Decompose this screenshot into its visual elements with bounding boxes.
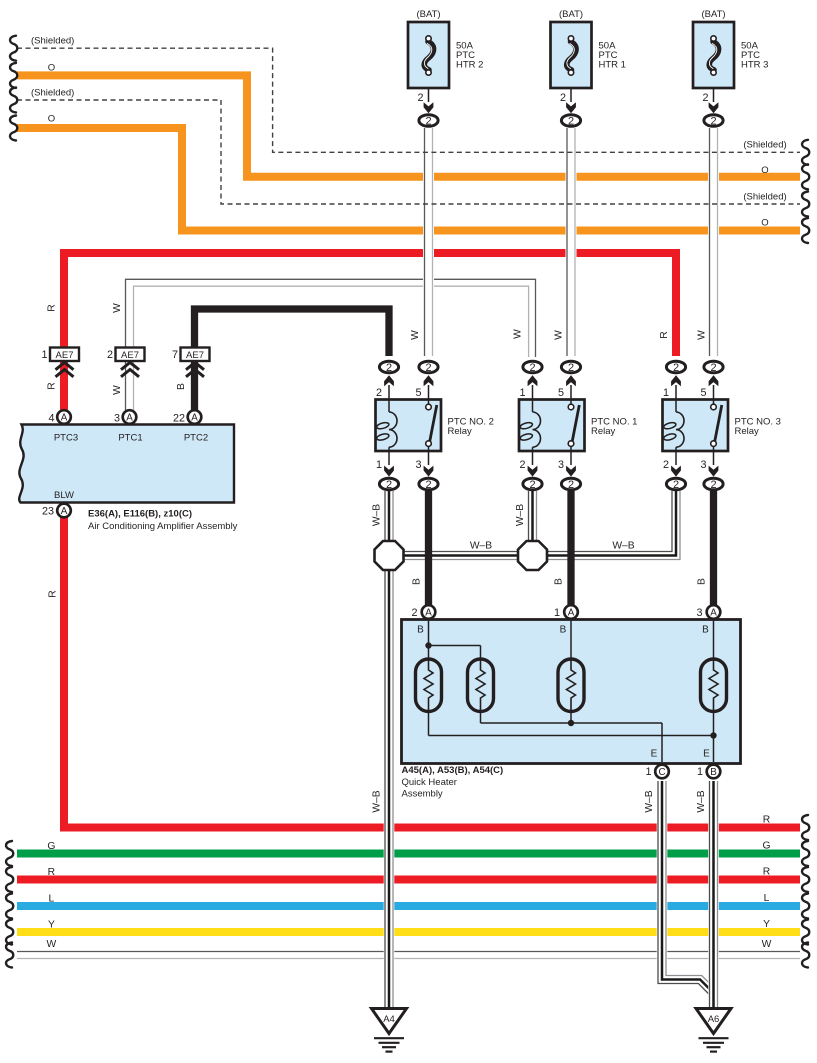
wire W-B heater pin B to ground A6 bbox=[708, 780, 719, 1009]
quick heater assembly box bbox=[402, 620, 741, 764]
svg-text:1: 1 bbox=[554, 607, 560, 619]
svg-text:AE7: AE7 bbox=[186, 350, 204, 361]
relay PTC NO. 2 label bbox=[448, 417, 494, 438]
relay PTC NO. 3 label bbox=[735, 417, 781, 438]
heater pin 1 (B) E bbox=[697, 749, 720, 779]
wire Y bottom bbox=[17, 928, 800, 936]
svg-text:B: B bbox=[176, 383, 187, 390]
svg-text:2: 2 bbox=[529, 479, 535, 491]
relay PTC NO. 1 label bbox=[591, 417, 637, 438]
wire L bottom bbox=[17, 902, 800, 910]
svg-text:A: A bbox=[191, 412, 198, 423]
svg-text:W–B: W–B bbox=[644, 790, 655, 812]
svg-text:2: 2 bbox=[519, 459, 525, 471]
svg-text:(BAT): (BAT) bbox=[559, 9, 583, 20]
svg-text:HTR 3: HTR 3 bbox=[741, 60, 768, 71]
svg-text:W–B: W–B bbox=[470, 541, 492, 552]
connector AE7 pin 1 bbox=[41, 348, 79, 377]
fuse F1 50A PTC HTR 2 connector bbox=[417, 92, 438, 128]
svg-text:4: 4 bbox=[48, 413, 54, 425]
svg-text:B: B bbox=[710, 767, 717, 778]
label shielded/O left bbox=[31, 36, 74, 125]
fuse F2 50A PTC HTR 1 labels bbox=[559, 9, 626, 71]
heater pin 1 (A) bbox=[554, 605, 578, 635]
svg-text:R: R bbox=[659, 331, 670, 338]
svg-text:E: E bbox=[703, 749, 710, 760]
svg-text:PTC1: PTC1 bbox=[118, 433, 142, 444]
svg-text:Assembly: Assembly bbox=[402, 789, 443, 800]
wire W bottom bbox=[17, 952, 800, 959]
svg-text:2: 2 bbox=[417, 92, 423, 104]
heater internal wiring bbox=[425, 620, 716, 762]
svg-text:2: 2 bbox=[568, 479, 574, 491]
svg-text:1: 1 bbox=[41, 349, 47, 361]
svg-text:1: 1 bbox=[663, 387, 669, 399]
svg-text:2: 2 bbox=[386, 479, 392, 491]
svg-text:R: R bbox=[48, 867, 55, 878]
heater element 3 bbox=[558, 659, 584, 712]
svg-text:W: W bbox=[112, 303, 123, 313]
fuse F1 50A PTC HTR 2 bbox=[408, 22, 449, 102]
junction J1 (shield octagon) bbox=[375, 541, 404, 570]
amp pin 3 (A) PTC1 bbox=[114, 410, 143, 443]
wire R from A/C amp pin 23 to right edge bbox=[64, 515, 800, 828]
svg-text:7: 7 bbox=[172, 349, 178, 361]
svg-text:(Shielded): (Shielded) bbox=[743, 192, 786, 203]
relay PTC NO. 2 switch bbox=[426, 400, 437, 451]
wire B relay3 pin3 to heater pin 3A bbox=[710, 491, 717, 605]
wire R bottom bbox=[17, 876, 800, 884]
svg-text:22: 22 bbox=[173, 413, 185, 425]
svg-text:HTR 2: HTR 2 bbox=[456, 60, 483, 71]
svg-text:W: W bbox=[762, 939, 772, 950]
connector AE7 pin 7 bbox=[172, 348, 210, 377]
svg-text:2: 2 bbox=[568, 362, 574, 374]
svg-text:O: O bbox=[761, 165, 768, 176]
wire W-B heater pin C to ground A6 bbox=[657, 780, 714, 995]
svg-text:L: L bbox=[764, 893, 770, 904]
bottom bundle labels right bbox=[762, 815, 772, 950]
heater labels bbox=[402, 765, 504, 800]
svg-text:5: 5 bbox=[558, 387, 564, 399]
svg-text:2: 2 bbox=[663, 459, 669, 471]
svg-text:L: L bbox=[49, 894, 55, 905]
relay PTC NO. 1 pins bbox=[519, 361, 580, 491]
wire W-B relay1 pin2 to junction bbox=[527, 491, 538, 542]
relay PTC NO. 3 pins bbox=[663, 361, 723, 491]
svg-text:Y: Y bbox=[763, 919, 770, 930]
svg-text:Relay: Relay bbox=[448, 426, 473, 437]
svg-text:B: B bbox=[412, 578, 423, 585]
svg-text:R: R bbox=[763, 815, 770, 826]
svg-text:(Shielded): (Shielded) bbox=[31, 36, 74, 47]
ground A4 bbox=[372, 1009, 407, 1052]
svg-text:Relay: Relay bbox=[591, 426, 616, 437]
svg-text:W: W bbox=[112, 385, 123, 395]
relay PTC NO. 3 switch bbox=[711, 400, 722, 451]
fuse F1 50A PTC HTR 2 labels bbox=[416, 9, 483, 71]
connector AE7 pin 2 bbox=[107, 348, 145, 377]
svg-text:Y: Y bbox=[48, 920, 55, 931]
svg-text:G: G bbox=[762, 841, 770, 852]
svg-text:Relay: Relay bbox=[735, 426, 760, 437]
svg-text:R: R bbox=[48, 590, 59, 597]
svg-text:2: 2 bbox=[411, 607, 417, 619]
wire W-B junction1 to ground A4 bbox=[384, 569, 395, 1009]
relay PTC NO. 1 box bbox=[519, 400, 585, 452]
shielded boundary 2 (dashed) bbox=[17, 100, 800, 204]
fuse F3 50A PTC HTR 3 labels bbox=[701, 9, 768, 71]
svg-text:2: 2 bbox=[702, 92, 708, 104]
svg-text:B: B bbox=[702, 625, 709, 636]
ground A6 bbox=[696, 1009, 731, 1052]
wire W fuse HTR2 to relay pin 5 bbox=[423, 127, 434, 357]
svg-text:(Shielded): (Shielded) bbox=[31, 88, 74, 99]
svg-text:W–B: W–B bbox=[612, 541, 634, 552]
svg-text:2: 2 bbox=[673, 479, 679, 491]
svg-text:2: 2 bbox=[425, 362, 431, 374]
svg-text:5: 5 bbox=[415, 387, 421, 399]
svg-text:3: 3 bbox=[558, 459, 564, 471]
relay PTC NO. 3 box bbox=[663, 400, 729, 452]
heater pin 1 (C) E bbox=[645, 749, 668, 779]
svg-text:O: O bbox=[48, 114, 55, 125]
svg-text:2: 2 bbox=[529, 362, 535, 374]
relay PTC NO. 2 box bbox=[376, 400, 442, 452]
svg-text:G: G bbox=[47, 841, 55, 852]
svg-text:2: 2 bbox=[710, 115, 716, 127]
svg-text:1: 1 bbox=[645, 766, 651, 778]
svg-text:1: 1 bbox=[519, 387, 525, 399]
wire W-B relay2 pin1 to junction bbox=[384, 491, 395, 542]
amp labels bbox=[88, 509, 238, 533]
svg-text:W: W bbox=[697, 330, 708, 340]
svg-text:A45(A), A53(B), A54(C): A45(A), A53(B), A54(C) bbox=[402, 765, 504, 776]
svg-text:2: 2 bbox=[560, 92, 566, 104]
wire B from A/C amp PTC2 to relay2 coil bbox=[195, 309, 390, 412]
wire color labels columns bbox=[47, 303, 708, 813]
svg-text:W–B: W–B bbox=[372, 790, 383, 812]
svg-text:A6: A6 bbox=[708, 1014, 720, 1025]
svg-text:W–B: W–B bbox=[515, 504, 526, 526]
wire orange O shielded-1 bbox=[17, 75, 800, 176]
fuse F2 50A PTC HTR 1 connector bbox=[560, 92, 581, 128]
shielded boundary 1 (dashed) bbox=[17, 48, 800, 152]
svg-text:A: A bbox=[710, 607, 717, 618]
svg-text:B: B bbox=[560, 625, 567, 636]
heater pin 2 (A) bbox=[411, 605, 435, 635]
svg-text:PTC2: PTC2 bbox=[184, 433, 208, 444]
svg-text:B: B bbox=[417, 625, 424, 636]
svg-text:2: 2 bbox=[710, 362, 716, 374]
wire W fuse HTR1 to relay pin 5 bbox=[566, 127, 577, 357]
svg-text:1: 1 bbox=[697, 766, 703, 778]
relay PTC NO. 1 switch bbox=[568, 400, 579, 451]
relay PTC NO. 1 coil bbox=[520, 400, 541, 451]
svg-text:B: B bbox=[697, 578, 708, 585]
svg-text:C: C bbox=[658, 767, 665, 778]
svg-text:A: A bbox=[61, 412, 68, 423]
svg-text:HTR 1: HTR 1 bbox=[599, 60, 626, 71]
svg-text:A: A bbox=[61, 506, 68, 517]
svg-text:O: O bbox=[761, 218, 768, 229]
svg-text:PTC3: PTC3 bbox=[54, 433, 78, 444]
svg-text:2: 2 bbox=[710, 479, 716, 491]
svg-text:BLW: BLW bbox=[54, 490, 74, 501]
wire R from A/C amp PTC3 to PTC NO.3 relay coil bbox=[64, 253, 676, 412]
svg-text:O: O bbox=[48, 63, 55, 74]
fuse F3 50A PTC HTR 3 connector bbox=[702, 92, 723, 128]
svg-text:2: 2 bbox=[425, 115, 431, 127]
fuse F2 50A PTC HTR 1 bbox=[551, 22, 592, 102]
svg-text:2: 2 bbox=[107, 349, 113, 361]
svg-text:3: 3 bbox=[696, 607, 702, 619]
svg-text:2: 2 bbox=[386, 362, 392, 374]
svg-text:A: A bbox=[126, 412, 133, 423]
svg-text:2: 2 bbox=[376, 387, 382, 399]
svg-text:AE7: AE7 bbox=[121, 350, 139, 361]
relay PTC NO. 3 coil bbox=[663, 400, 684, 451]
wire G bottom bbox=[17, 850, 800, 858]
wire-end terminators left bbox=[6, 36, 17, 968]
svg-text:W–B: W–B bbox=[696, 790, 707, 812]
svg-text:2: 2 bbox=[425, 479, 431, 491]
svg-text:A4: A4 bbox=[383, 1014, 395, 1025]
A/C amplifier assembly box bbox=[19, 425, 234, 503]
fuse F3 50A PTC HTR 3 bbox=[693, 22, 734, 102]
bottom bundle labels left bbox=[47, 841, 57, 950]
amp pin 4 (A) PTC3 bbox=[48, 410, 78, 443]
junction J2 (shield octagon) bbox=[518, 541, 547, 570]
svg-text:W: W bbox=[47, 939, 57, 950]
svg-text:R: R bbox=[47, 304, 58, 311]
label shielded/O right bbox=[743, 140, 786, 229]
svg-text:W: W bbox=[513, 329, 524, 339]
svg-text:E: E bbox=[651, 749, 658, 760]
heater element 1 bbox=[416, 659, 442, 712]
heater element 2 bbox=[468, 659, 494, 712]
wire orange O shielded-2 bbox=[17, 128, 800, 231]
svg-text:1: 1 bbox=[376, 459, 382, 471]
svg-text:E36(A), E116(B), z10(C): E36(A), E116(B), z10(C) bbox=[88, 509, 192, 520]
relay PTC NO. 2 coil bbox=[376, 400, 397, 451]
heater element 4 bbox=[701, 659, 727, 712]
svg-text:2: 2 bbox=[673, 362, 679, 374]
svg-text:R: R bbox=[763, 867, 770, 878]
svg-text:A: A bbox=[568, 607, 575, 618]
relay PTC NO. 2 pins bbox=[376, 361, 438, 491]
heater pin 3 (A) bbox=[696, 605, 720, 635]
svg-text:3: 3 bbox=[415, 459, 421, 471]
wire B relay2 pin3 to heater pin 2A bbox=[425, 491, 432, 605]
svg-text:A: A bbox=[425, 607, 432, 618]
svg-text:W: W bbox=[554, 330, 565, 340]
amp pin 22 (A) PTC2 bbox=[173, 410, 208, 443]
svg-text:5: 5 bbox=[700, 387, 706, 399]
svg-text:Air Conditioning Amplifier Ass: Air Conditioning Amplifier Assembly bbox=[88, 521, 238, 532]
wire B relay1 pin3 to heater pin 1A bbox=[567, 491, 574, 605]
svg-text:(BAT): (BAT) bbox=[416, 9, 440, 20]
wire W-B bus junction2 to relay3 pin2 bbox=[403, 491, 681, 561]
svg-text:Quick Heater: Quick Heater bbox=[402, 777, 457, 788]
svg-text:23: 23 bbox=[42, 506, 54, 518]
svg-text:(BAT): (BAT) bbox=[701, 9, 725, 20]
svg-text:3: 3 bbox=[700, 459, 706, 471]
svg-text:2: 2 bbox=[568, 115, 574, 127]
wire W from A/C amp PTC1 to PTC NO.1 relay coil bbox=[122, 272, 540, 412]
svg-text:AE7: AE7 bbox=[56, 350, 74, 361]
svg-text:B: B bbox=[554, 578, 565, 585]
svg-text:3: 3 bbox=[114, 413, 120, 425]
svg-text:W–B: W–B bbox=[372, 504, 383, 526]
wire W fuse HTR3 to relay pin 5 bbox=[708, 127, 719, 357]
svg-text:W: W bbox=[410, 330, 421, 340]
amp pin 23 (A) BLW bbox=[42, 490, 74, 518]
svg-text:(Shielded): (Shielded) bbox=[743, 140, 786, 151]
svg-text:R: R bbox=[47, 382, 58, 389]
wire-end terminators right bbox=[802, 140, 809, 968]
